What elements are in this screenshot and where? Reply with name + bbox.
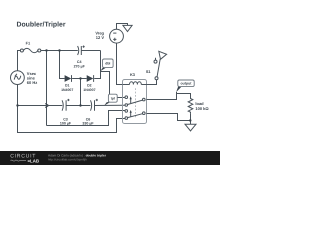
svg-text:tpl: tpl (111, 97, 115, 101)
wire D1 to D2 (72, 78, 87, 80)
footer bar (0, 151, 220, 165)
svg-text:60 Hz: 60 Hz (27, 80, 37, 85)
svg-text:100 µF: 100 µF (60, 121, 72, 125)
footer credit text (48, 153, 107, 161)
svg-text:dbl: dbl (105, 62, 110, 66)
chevron marker on rail (45, 104, 48, 108)
svg-text:S1: S1 (146, 69, 152, 74)
wire output node to load top (177, 94, 191, 98)
resistor load (188, 97, 209, 114)
wire D1-D2 junction down to rail (80, 79, 82, 106)
Vsec source (11, 71, 38, 85)
svg-text:D1: D1 (65, 83, 70, 87)
wire top horizontal (41, 50, 78, 52)
fuse F1 (20, 41, 40, 53)
wire Vreg top to ground (117, 24, 128, 30)
wire x46 vertical (top wire down across rail) (46, 51, 48, 126)
capacitor C6 (82, 99, 98, 125)
svg-text:1N4007: 1N4007 (83, 88, 95, 92)
rail left (Vsec bottom to C3) (18, 105, 63, 107)
relay K3 (123, 72, 147, 123)
junction dots (45, 49, 47, 51)
svg-text:12 V: 12 V (96, 35, 105, 40)
wire Vsec bottom loop to relay pole 2 (18, 106, 126, 133)
junction dot load bottom (189, 119, 191, 121)
wire coil to S1 (147, 80, 157, 85)
svg-text:≡LAB: ≡LAB (28, 159, 40, 164)
flag tpl (104, 94, 117, 105)
svg-text:1N4007: 1N4007 (61, 88, 73, 92)
diode D1 (61, 75, 73, 92)
wire top horizontal right of C4 (81, 50, 100, 52)
wire Vsec bottom to rail (17, 85, 19, 106)
wire D2 cathode up to top wire (94, 51, 100, 79)
svg-text:output: output (181, 82, 193, 86)
wire relay common 2 to load bottom (147, 114, 191, 121)
svg-text:270 µF: 270 µF (74, 65, 86, 69)
wire dbl jog to relay throw 1 (101, 72, 126, 98)
svg-text:100 kΩ: 100 kΩ (195, 106, 209, 111)
rail C3 to C6 (66, 105, 90, 107)
wire relay common 1 to output node (147, 92, 177, 100)
diode D2 (83, 75, 95, 92)
wire x59 vertical to diode row (60, 51, 65, 79)
svg-text:D2: D2 (87, 83, 92, 87)
ground (load) (185, 124, 196, 131)
Vreg source (95, 29, 123, 43)
rail C6 to relay pole 1 (95, 104, 126, 106)
capacitor C4 (74, 46, 86, 69)
flag output (176, 80, 194, 92)
ground (Vreg) (123, 25, 132, 31)
capacitor C3 (60, 99, 72, 125)
svg-text:C4: C4 (77, 60, 82, 64)
wire doubler path to relay throw 2 (47, 111, 126, 126)
flag dbl (100, 59, 113, 71)
svg-text:Doubler/Tripler: Doubler/Tripler (17, 22, 66, 29)
wire top left vertical (Vsec top to fuse) (18, 51, 21, 71)
svg-text:K3: K3 (130, 72, 136, 77)
wire Vreg bottom to coil (117, 43, 123, 84)
wire load bottom to ground (190, 114, 192, 124)
svg-text:http://circuitlab.com/c/5qm6jh: http://circuitlab.com/c/5qm6jh (48, 157, 87, 161)
footer logo CIRCUIT LAB (10, 154, 39, 164)
switch S1 (146, 51, 167, 79)
svg-text:330 µF: 330 µF (82, 121, 94, 125)
